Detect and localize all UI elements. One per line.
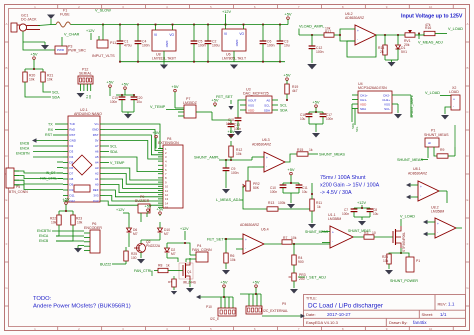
svg-text:RX: RX	[88, 95, 92, 99]
svg-text:SHUNT_AMPL: SHUNT_AMPL	[194, 156, 220, 160]
svg-text:ENCB: ENCB	[39, 239, 49, 243]
svg-text:100n: 100n	[267, 44, 275, 48]
svg-text:+12V: +12V	[357, 201, 366, 205]
svg-text:V_LOAD: V_LOAD	[448, 27, 463, 31]
svg-text:-> 4.5V / 30A: -> 4.5V / 30A	[320, 190, 352, 196]
svg-text:V_TEMP: V_TEMP	[110, 161, 125, 165]
svg-text:U6.4: U6.4	[261, 228, 269, 232]
svg-text:+: +	[332, 231, 334, 235]
svg-text:AD8630ARZ: AD8630ARZ	[345, 16, 364, 20]
svg-text:-: -	[332, 240, 333, 244]
svg-text:VO: VO	[169, 33, 174, 37]
svg-text:Date:: Date:	[306, 312, 316, 317]
svg-text:D9: D9	[70, 183, 74, 187]
svg-text:1k: 1k	[317, 205, 321, 209]
svg-text:+5V: +5V	[211, 97, 219, 102]
svg-text:sh: sh	[428, 141, 432, 145]
svg-text:3V3: 3V3	[93, 194, 99, 198]
svg-text:10u: 10u	[373, 212, 379, 216]
svg-text:VO: VO	[239, 32, 244, 36]
svg-text:+5V: +5V	[106, 79, 114, 84]
svg-text:D13: D13	[93, 199, 99, 203]
svg-text:+5V: +5V	[30, 51, 38, 56]
svg-text:10k: 10k	[291, 236, 297, 240]
svg-text:+12V: +12V	[116, 208, 125, 212]
svg-text:5V1: 5V1	[401, 50, 407, 54]
svg-text:VLOAD_AMPL: VLOAD_AMPL	[299, 25, 324, 29]
svg-text:SCL: SCL	[280, 104, 287, 108]
svg-text:U6.3: U6.3	[262, 138, 270, 142]
svg-text:TxD: TxD	[70, 122, 75, 126]
svg-text:GND: GND	[235, 40, 239, 48]
svg-text:SHUNT_MEAS: SHUNT_MEAS	[397, 158, 423, 162]
svg-text:P1: P1	[431, 129, 435, 133]
svg-text:CH2-: CH2-	[383, 94, 390, 98]
svg-text:R17: R17	[325, 30, 331, 34]
svg-text:VDD: VDD	[248, 109, 255, 113]
svg-text:D2: D2	[70, 144, 74, 148]
svg-text:+12V: +12V	[222, 10, 231, 14]
svg-text:Andere Power MOsfets? (BUK956R: Andere Power MOsfets? (BUK956R1)	[33, 304, 131, 310]
svg-text:10k: 10k	[77, 221, 83, 225]
svg-text:LOAD: LOAD	[449, 90, 459, 94]
svg-text:I_SET_ADJ: I_SET_ADJ	[306, 276, 326, 280]
svg-text:+5V: +5V	[284, 11, 292, 16]
svg-text:I2C_E: I2C_E	[210, 317, 220, 321]
svg-text:SCL: SCL	[384, 107, 390, 111]
svg-text:470u: 470u	[124, 44, 132, 48]
svg-text:10u: 10u	[284, 44, 290, 48]
svg-text:VOUT: VOUT	[248, 99, 257, 103]
svg-text:V_TEMP: V_TEMP	[150, 105, 166, 109]
svg-text:RST: RST	[70, 133, 76, 137]
svg-text:+: +	[437, 222, 439, 226]
svg-text:SDA: SDA	[110, 150, 118, 154]
svg-text:10k: 10k	[325, 27, 331, 31]
svg-text:100n: 100n	[142, 44, 150, 48]
svg-text:L_MEAS_ADJ: L_MEAS_ADJ	[216, 198, 240, 202]
svg-text:PWR: PWR	[57, 48, 65, 52]
svg-text:ARDUINO NANO: ARDUINO NANO	[74, 112, 102, 116]
svg-text:100n: 100n	[270, 190, 277, 194]
svg-text:D7: D7	[70, 172, 74, 176]
svg-text:A3: A3	[95, 166, 99, 170]
svg-text:SERIAL: SERIAL	[79, 72, 92, 76]
svg-text:REF: REF	[93, 188, 99, 192]
svg-text:Drawn By:: Drawn By:	[389, 320, 407, 325]
svg-text:100k: 100k	[278, 201, 286, 205]
svg-text:SDA: SDA	[264, 109, 270, 113]
svg-text:Vin: Vin	[94, 122, 99, 126]
svg-text:R?: R?	[168, 280, 172, 284]
svg-text:200: 200	[299, 277, 305, 281]
svg-text:TITLE:: TITLE:	[306, 297, 317, 301]
svg-text:AD8630ARZ: AD8630ARZ	[240, 223, 259, 227]
svg-text:SHUNT_AMPL: SHUNT_AMPL	[410, 95, 414, 118]
svg-text:-: -	[266, 164, 267, 168]
svg-text:fan4tix: fan4tix	[413, 320, 427, 325]
svg-text:AD8630ARZ: AD8630ARZ	[252, 143, 271, 147]
svg-text:+: +	[266, 156, 268, 160]
svg-text:+: +	[245, 238, 247, 242]
svg-text:F: F	[467, 242, 469, 246]
svg-text:2k: 2k	[380, 50, 384, 54]
svg-text:SCL: SCL	[355, 126, 359, 132]
svg-text:INPUT_VLTS: INPUT_VLTS	[92, 54, 115, 58]
svg-text:PN2222A: PN2222A	[146, 244, 161, 248]
svg-text:D3: D3	[70, 150, 74, 154]
svg-text:+5V: +5V	[227, 129, 235, 134]
svg-text:A5: A5	[95, 155, 99, 159]
svg-text:A: A	[466, 22, 468, 26]
svg-text:D12: D12	[70, 199, 76, 203]
svg-text:A2: A2	[95, 172, 99, 176]
svg-text:GND: GND	[165, 41, 169, 49]
svg-text:E: E	[466, 198, 468, 202]
svg-text:+5V: +5V	[220, 279, 228, 284]
svg-text:V_MEAS_ADJ: V_MEAS_ADJ	[418, 41, 443, 45]
svg-text:ENCBTN: ENCBTN	[37, 229, 51, 233]
svg-text:100n: 100n	[198, 44, 206, 48]
svg-text:A6: A6	[95, 150, 99, 154]
svg-text:10k: 10k	[230, 258, 236, 262]
svg-text:BUZ22: BUZ22	[100, 263, 111, 267]
svg-text:5V: 5V	[95, 139, 99, 143]
svg-text:Sheet:: Sheet:	[422, 312, 434, 317]
svg-text:10k: 10k	[29, 78, 35, 82]
svg-text:V_LOAD: V_LOAD	[425, 91, 440, 95]
svg-text:SCL: SCL	[110, 145, 117, 149]
svg-text:R13: R13	[268, 201, 274, 205]
svg-text:A0: A0	[95, 183, 99, 187]
svg-text:+5V: +5V	[252, 279, 260, 284]
svg-text:REV:: REV:	[438, 302, 447, 307]
svg-text:+12V: +12V	[180, 227, 189, 231]
svg-text:SHUNT_MEAS: SHUNT_MEAS	[319, 153, 345, 157]
svg-text:VDD: VDD	[360, 103, 367, 107]
svg-text:2017-10-27: 2017-10-27	[327, 312, 351, 317]
svg-text:R15: R15	[297, 148, 303, 152]
svg-text:CH2+: CH2+	[382, 98, 390, 102]
svg-text:-: -	[357, 37, 358, 41]
svg-text:+12V: +12V	[86, 29, 95, 33]
svg-text:BTN_CONN: BTN_CONN	[9, 190, 28, 194]
svg-text:ENCA: ENCA	[39, 234, 49, 238]
svg-text:SHUNT_POWER: SHUNT_POWER	[390, 279, 418, 283]
svg-text:+: +	[420, 185, 422, 189]
svg-text:10k: 10k	[383, 259, 389, 263]
svg-text:-: -	[420, 193, 421, 197]
svg-text:+: +	[357, 29, 359, 33]
svg-text:10u: 10u	[300, 117, 306, 121]
svg-text:ENCBTN: ENCBTN	[16, 152, 30, 156]
svg-text:M7: M7	[133, 232, 138, 236]
svg-text:+5V: +5V	[144, 203, 152, 208]
svg-text:EasyEDA V4.10.3: EasyEDA V4.10.3	[306, 320, 339, 325]
svg-text:P10: P10	[206, 305, 212, 309]
svg-text:100n: 100n	[342, 212, 349, 216]
svg-text:SCL: SCL	[52, 91, 59, 95]
svg-text:FAN_CTRL: FAN_CTRL	[134, 269, 152, 273]
svg-text:LM35DZ: LM35DZ	[183, 101, 198, 105]
svg-text:100n: 100n	[110, 100, 117, 104]
svg-text:MCP3426A0.ESN: MCP3426A0.ESN	[358, 86, 387, 90]
svg-text:D4: D4	[70, 155, 74, 159]
svg-text:DC Load / LiPo discharger: DC Load / LiPo discharger	[308, 303, 384, 310]
svg-text:AD8630ARZ: AD8630ARZ	[408, 172, 427, 176]
svg-text:FUSE: FUSE	[60, 13, 70, 17]
svg-text:LM358M: LM358M	[431, 210, 444, 214]
svg-text:P5: P5	[16, 185, 20, 189]
svg-text:P9: P9	[282, 302, 286, 306]
svg-text:R8: R8	[158, 264, 162, 268]
svg-text:+5V: +5V	[287, 167, 295, 172]
svg-text:100n: 100n	[226, 122, 233, 126]
svg-text:SHUNT_MEAS: SHUNT_MEAS	[424, 133, 449, 137]
svg-text:ENCA: ENCA	[20, 147, 30, 151]
svg-text:A0: A0	[266, 99, 270, 103]
svg-text:100n: 100n	[326, 117, 333, 121]
svg-text:10k: 10k	[51, 221, 57, 225]
svg-text:100n: 100n	[316, 50, 324, 54]
svg-text:+5V: +5V	[152, 130, 160, 135]
svg-text:P1: P1	[416, 259, 420, 263]
svg-text:-: -	[437, 230, 438, 234]
svg-text:100n: 100n	[231, 171, 239, 175]
svg-text:1k: 1k	[309, 148, 313, 152]
svg-text:DC-JACK: DC-JACK	[21, 18, 37, 22]
svg-text:B: B	[5, 66, 7, 70]
svg-text:TX: TX	[48, 123, 53, 127]
svg-text:V_SLOW: V_SLOW	[95, 9, 111, 13]
svg-text:+5V: +5V	[312, 99, 320, 104]
svg-text:STP36NF06L: STP36NF06L	[402, 232, 406, 252]
svg-text:FAN_CONN: FAN_CONN	[192, 248, 212, 252]
svg-text:R9: R9	[440, 148, 444, 152]
svg-text:1/1: 1/1	[440, 312, 447, 317]
svg-text:V_CHAR: V_CHAR	[64, 33, 80, 37]
svg-text:GND: GND	[92, 128, 98, 132]
svg-text:TODO:: TODO:	[33, 296, 52, 302]
svg-text:SCL: SCL	[264, 104, 270, 108]
svg-text:75mv / 100A Shunt: 75mv / 100A Shunt	[320, 175, 366, 181]
svg-text:10: 10	[429, 327, 433, 331]
svg-text:+5V: +5V	[62, 196, 70, 201]
svg-text:SHUNT_MEAS: SHUNT_MEAS	[305, 230, 329, 234]
svg-text:M7: M7	[164, 232, 169, 236]
svg-text:10u: 10u	[137, 100, 143, 104]
svg-text:50K: 50K	[253, 186, 260, 190]
svg-text:VSS: VSS	[384, 103, 390, 107]
svg-text:VI: VI	[154, 33, 157, 37]
svg-text:I2C_EXTERNAL: I2C_EXTERNAL	[263, 309, 288, 313]
svg-text:LM358M: LM358M	[328, 217, 341, 221]
svg-text:1k: 1k	[166, 264, 170, 268]
svg-text:+: +	[453, 98, 455, 102]
svg-text:-: -	[245, 246, 246, 250]
svg-text:VI: VI	[224, 32, 227, 36]
svg-text:A1: A1	[95, 177, 99, 181]
svg-text:M7: M7	[171, 252, 176, 256]
svg-text:D6: D6	[70, 166, 74, 170]
svg-text:V_LOAD: V_LOAD	[400, 215, 415, 219]
svg-text:10k: 10k	[47, 78, 53, 82]
svg-text:U8.1: U8.1	[413, 167, 421, 171]
svg-text:RX: RX	[48, 128, 54, 132]
svg-text:RST: RST	[93, 133, 99, 137]
svg-text:SHUNT_MEAS: SHUNT_MEAS	[348, 229, 371, 233]
svg-text:P11: P11	[110, 41, 116, 45]
svg-text:+5V: +5V	[156, 206, 164, 211]
svg-text:15: 15	[165, 206, 169, 210]
svg-text:100u: 100u	[212, 44, 220, 48]
svg-text:47k: 47k	[425, 23, 431, 27]
svg-text:Q1: Q1	[187, 270, 192, 274]
svg-text:D8: D8	[70, 177, 74, 181]
svg-text:PWR_SRC: PWR_SRC	[68, 49, 86, 53]
svg-text:GND: GND	[70, 139, 76, 143]
svg-text:100: 100	[131, 256, 137, 260]
svg-text:4k7: 4k7	[292, 89, 298, 93]
svg-text:+5V: +5V	[171, 84, 179, 89]
svg-text:1.1: 1.1	[448, 302, 455, 307]
svg-text:VSS: VSS	[248, 104, 254, 108]
svg-text:+5V: +5V	[121, 81, 129, 86]
svg-text:x200 Gain -> 15V / 100A: x200 Gain -> 15V / 100A	[320, 183, 380, 189]
svg-text:CH1+: CH1+	[360, 94, 368, 98]
svg-text:+5V: +5V	[283, 72, 291, 77]
svg-text:ENCODER: ENCODER	[84, 226, 102, 230]
svg-text:CH1-: CH1-	[360, 98, 367, 102]
svg-text:RxD: RxD	[70, 128, 76, 132]
svg-text:Input Voltage up to 125V: Input Voltage up to 125V	[401, 14, 463, 20]
svg-text:SDA: SDA	[280, 109, 288, 113]
svg-text:R7: R7	[283, 236, 287, 240]
svg-text:ENCB: ENCB	[20, 142, 30, 146]
svg-text:SDA: SDA	[52, 96, 60, 100]
svg-text:D11: D11	[70, 194, 75, 198]
svg-text:10u: 10u	[302, 190, 308, 194]
svg-text:FET_SET: FET_SET	[207, 238, 224, 242]
svg-text:A7: A7	[95, 144, 99, 148]
svg-text:F: F	[6, 242, 8, 246]
svg-text:RST: RST	[45, 133, 53, 137]
svg-text:SDA: SDA	[360, 107, 366, 111]
svg-text:DAC_MCP4725: DAC_MCP4725	[243, 92, 269, 96]
svg-text:A: A	[5, 22, 7, 26]
svg-text:10: 10	[372, 231, 376, 235]
svg-text:EXTENSION: EXTENSION	[158, 141, 179, 145]
svg-text:B: B	[466, 66, 468, 70]
svg-text:10: 10	[429, 5, 433, 9]
svg-text:900: 900	[298, 260, 304, 264]
svg-text:-: -	[453, 104, 454, 108]
svg-text:10k: 10k	[236, 152, 242, 156]
svg-text:E: E	[5, 198, 7, 202]
svg-text:A4: A4	[95, 161, 99, 165]
